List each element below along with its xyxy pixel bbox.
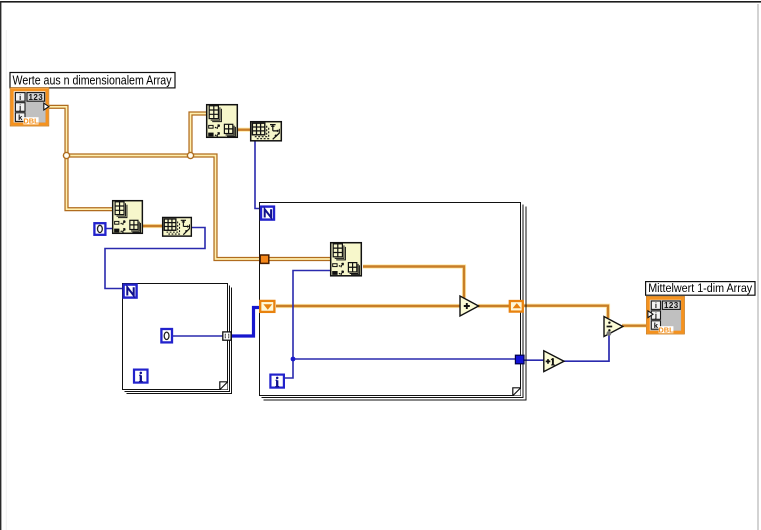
- left shift register terminal: [260, 301, 274, 312]
- label "Mittelwert 1-dim Array": [646, 281, 755, 295]
- label "Werte aus n dimensionalem Array": [10, 73, 175, 88]
- right shift register terminal: [510, 301, 523, 312]
- svg-text:Mittelwert 1-dim Array: Mittelwert 1-dim Array: [648, 281, 753, 295]
- wire blue scalar: constant 0 to Index Array 2: [106, 228, 112, 230]
- wire 2D-array orange: main run junction1 to junction2 to orange tunnel and Index Array 3: [67, 156, 331, 260]
- for-loop small: main border: [123, 284, 228, 390]
- svg-text:j: j: [654, 311, 657, 320]
- for-loop big: shadow frames: [262, 205, 526, 401]
- add node: [460, 296, 479, 316]
- wire 1D-array orange: add node output to right shift register: [478, 304, 509, 308]
- for-loop small: shadow frames: [125, 286, 232, 394]
- svg-text:i: i: [655, 301, 657, 310]
- wire 1D-array orange: divide output to indicator: [622, 324, 648, 328]
- index array node 2: [113, 201, 143, 234]
- for-loop small: page curl corner: [220, 382, 228, 390]
- for-loop big: page curl corner: [513, 388, 521, 396]
- solid orange tunnel on big loop left border: [260, 255, 269, 263]
- wire 1D-array orange: right shift register to divide top input: [524, 306, 608, 318]
- constant 0 next to Index Array 2: [94, 223, 105, 235]
- wire blue scalar: Array Size 1 down to big loop N terminal: [255, 142, 261, 209]
- svg-text:123: 123: [29, 93, 44, 102]
- N count terminal small loop: [124, 285, 137, 298]
- wire blue scalar: branch from i wire to blue tunnel: [293, 358, 516, 360]
- i iteration terminal small loop: [134, 370, 148, 383]
- wire blue scalar: +1 node output to divide bottom input: [564, 335, 610, 362]
- wire 1D-array orange: left shift register to add node lower input: [276, 304, 460, 308]
- faint inner left margin line: [5, 30, 8, 530]
- wire blue scalar: iteration terminal up to Index Array 3 index input: [284, 271, 330, 379]
- increment +1 node: [544, 351, 564, 372]
- svg-text:j: j: [18, 103, 21, 112]
- svg-text:i: i: [19, 93, 21, 102]
- array size node 1: [251, 122, 282, 141]
- solid blue tunnel on big loop right border: [515, 355, 524, 364]
- index array node 3: [331, 243, 362, 276]
- wire blue scalar: Array Size 2 around to small loop N terminal: [105, 228, 205, 289]
- diagram window left border: [0, 1, 1, 530]
- array size node 2: [163, 217, 192, 236]
- wire 2D-array orange: junction2 up to Index Array 1: [191, 114, 207, 156]
- wire 1D-array orange: Index Array 3 down to add node top input: [363, 267, 464, 300]
- wire junction A hollow: [63, 152, 69, 158]
- wire junction B hollow: [187, 152, 193, 158]
- array indicator terminal DBL: [646, 296, 684, 334]
- constant 0 inside small loop: [161, 329, 172, 342]
- i iteration terminal big loop: [270, 375, 284, 388]
- wire blue scalar: blue tunnel to +1 node: [524, 359, 545, 361]
- wire 1D-array orange: Index Array 1 to Array Size 1: [238, 128, 250, 132]
- wire junction blue dot: [291, 357, 296, 362]
- svg-text:Werte aus n dimensionalem Arra: Werte aus n dimensionalem Array: [13, 73, 173, 87]
- wire thick blue 1D int array: small loop tunnel to left shift register: [231, 308, 260, 337]
- wire blue scalar: constant 0 to indexing tunnel in small loop: [172, 335, 223, 337]
- divide node: [604, 317, 623, 337]
- svg-text:123: 123: [664, 301, 679, 310]
- diagram window top border: [0, 1, 761, 3]
- svg-text:DBL: DBL: [23, 117, 39, 126]
- wire 1D-array orange: Index Array 2 to Array Size 2: [143, 224, 162, 228]
- coercion dot on divide lower input: [607, 331, 612, 336]
- indexing tunnel on small loop right border: [223, 332, 231, 340]
- diagram window right scrollbar edge: [757, 4, 758, 530]
- wire 2D-array orange: control down through junctions to Index Array 2: [49, 107, 112, 209]
- N count terminal big loop: [261, 207, 274, 220]
- array control terminal DBL: [10, 88, 49, 126]
- svg-text:DBL: DBL: [658, 326, 674, 335]
- index array node 1: [207, 105, 238, 138]
- for-loop big: main border: [260, 203, 521, 396]
